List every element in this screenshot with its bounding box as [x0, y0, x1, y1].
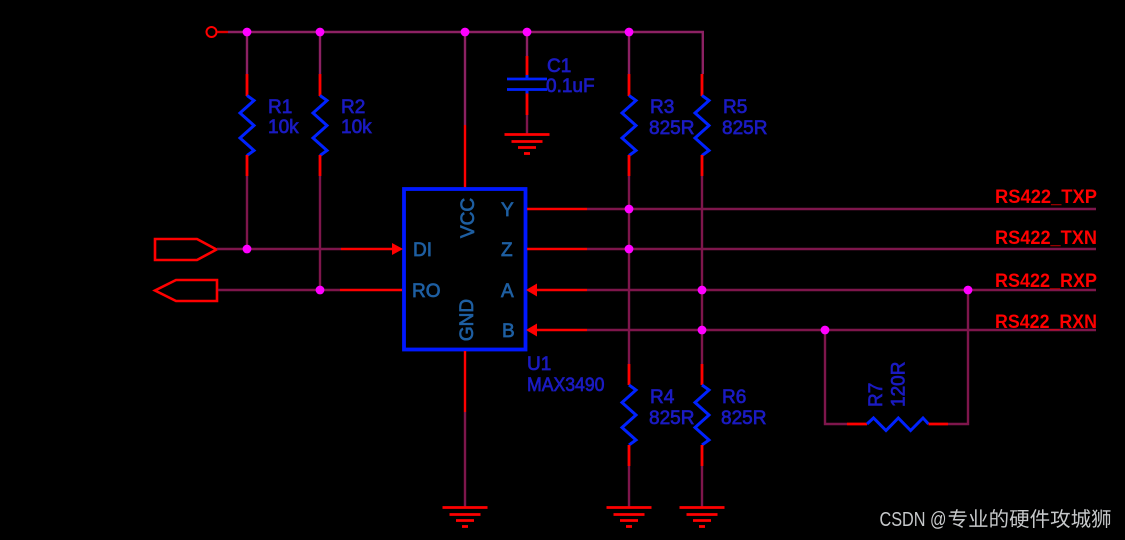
- wire Z pin red segment: [527, 248, 587, 250]
- watermark chinese glyphs: [949, 509, 1111, 528]
- ground under R4: [607, 508, 652, 527]
- wire RXN branch down to R7: [825, 330, 847, 424]
- wire R1 lower to DI net: [246, 176, 248, 249]
- wire R4 lower to ground: [628, 466, 630, 507]
- wire R5 lower through RXP RXN down to R6: [701, 176, 703, 364]
- wire RS422_TXN net: [587, 248, 1096, 250]
- junction dot rail R2: [316, 28, 325, 37]
- ground under U1: [443, 508, 488, 527]
- resistor R7: [847, 418, 948, 431]
- resistor R4: [622, 364, 636, 466]
- svg-text:R5: R5: [723, 97, 747, 118]
- junction dot TXP R3: [625, 205, 634, 214]
- junction dot rail R3: [625, 28, 634, 37]
- junction dot RXN R5: [698, 326, 707, 335]
- svg-text:825R: 825R: [721, 408, 766, 429]
- junction dot rail R1: [243, 28, 252, 37]
- wire C1 lower lead: [526, 94, 529, 135]
- arrow into A pin: [526, 284, 537, 297]
- wire U1 GND to ground: [464, 412, 466, 507]
- svg-text:RS422_RXP: RS422_RXP: [995, 271, 1097, 292]
- resistor R5: [695, 74, 709, 176]
- svg-text:825R: 825R: [649, 408, 694, 429]
- IC U1 body: [404, 189, 526, 350]
- svg-text:RS422_TXP: RS422_TXP: [995, 187, 1097, 208]
- resistor R6: [695, 364, 709, 466]
- wire R7 right up to RXP: [948, 290, 968, 424]
- svg-text:Z: Z: [501, 240, 513, 261]
- svg-text:DI: DI: [413, 240, 432, 261]
- wire RS422_RXN net: [587, 329, 1096, 331]
- wire R2 lower to RO net: [319, 176, 321, 290]
- wire R1 upper lead: [246, 32, 248, 74]
- wire RS422_TXP net: [587, 208, 1096, 210]
- svg-text:R6: R6: [722, 387, 746, 408]
- svg-text:U1: U1: [527, 354, 551, 375]
- svg-text:RO: RO: [412, 281, 441, 302]
- junction dot TXN R3: [625, 245, 634, 254]
- wire VCC column to U1: [464, 32, 466, 188]
- svg-text:120R: 120R: [889, 362, 910, 407]
- svg-text:C1: C1: [547, 56, 571, 77]
- port RO output: [155, 280, 217, 301]
- arrow into B pin: [526, 324, 537, 337]
- svg-text:R7: R7: [866, 383, 887, 407]
- svg-text:MAX3490: MAX3490: [527, 375, 605, 396]
- wire B pin red segment: [536, 329, 587, 331]
- svg-text:GND: GND: [457, 299, 478, 341]
- wire A pin red segment: [536, 289, 587, 291]
- wire R3 lower through TXP TXN down to R4: [628, 176, 630, 364]
- wire R6 lower to ground: [701, 466, 703, 507]
- wire RS422_RXP net: [587, 289, 1096, 291]
- svg-text:RS422_RXN: RS422_RXN: [995, 312, 1097, 333]
- ground under C1: [505, 135, 550, 154]
- svg-text:825R: 825R: [722, 118, 767, 139]
- junction dot rail C1: [523, 28, 532, 37]
- junction dot RXN R7: [821, 326, 830, 335]
- wire R3 upper lead: [628, 32, 630, 74]
- svg-text:R4: R4: [650, 387, 675, 408]
- junction dot rail VCC: [461, 28, 470, 37]
- svg-text:10k: 10k: [341, 117, 372, 138]
- svg-text:VCC: VCC: [458, 198, 479, 238]
- junction dot RXP R5: [698, 286, 707, 295]
- wire R2 upper lead: [319, 32, 321, 74]
- arrow into DI pin: [392, 243, 403, 255]
- wire VCC top rail: [228, 32, 703, 74]
- resistor R3: [622, 74, 636, 176]
- junction dot DI R1: [243, 245, 252, 254]
- resistor R1: [240, 74, 254, 176]
- wire DI net: [217, 248, 400, 250]
- junction dot RXP R7: [964, 286, 973, 295]
- svg-text:CSDN @: CSDN @: [880, 508, 947, 531]
- ground under R6: [680, 508, 725, 527]
- svg-text:A: A: [501, 281, 514, 302]
- wire C1 upper lead: [526, 32, 528, 76]
- svg-text:Y: Y: [501, 200, 514, 221]
- wire red stub from circle: [217, 31, 228, 33]
- port DI input: [155, 239, 217, 260]
- svg-text:10k: 10k: [268, 117, 299, 138]
- no-connect circle: [207, 27, 217, 37]
- svg-text:B: B: [502, 321, 515, 342]
- resistor R2: [313, 74, 327, 176]
- svg-text:RS422_TXN: RS422_TXN: [995, 228, 1097, 249]
- svg-text:R3: R3: [650, 97, 674, 118]
- wire U1 GND pin red segment: [464, 351, 466, 412]
- capacitor C1: [507, 75, 547, 94]
- wire Y pin red segment: [527, 208, 587, 210]
- junction dot RO R2: [316, 286, 325, 295]
- wire RO net: [218, 289, 402, 291]
- svg-text:R1: R1: [268, 97, 292, 118]
- svg-text:825R: 825R: [649, 118, 694, 139]
- svg-text:0.1uF: 0.1uF: [546, 76, 595, 97]
- svg-text:R2: R2: [341, 97, 365, 118]
